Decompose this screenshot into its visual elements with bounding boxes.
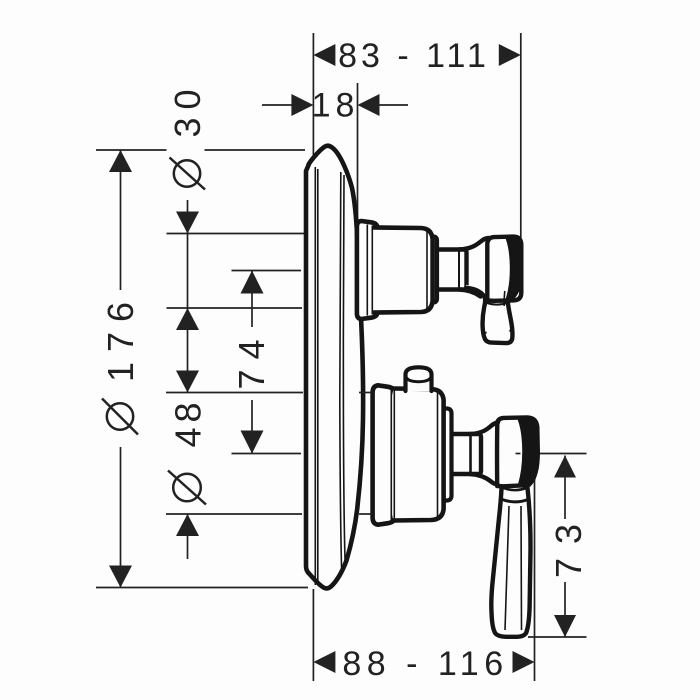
arrow 83-111 right: [499, 44, 521, 66]
73 top segment inside hub: [516, 453, 521, 455]
extension line y=514 lower stem bottom: [166, 513, 302, 515]
lower grip: [491, 480, 530, 637]
arrow 74 top (up): [241, 271, 264, 294]
diameter symbol for 48: [173, 474, 201, 502]
extension line y=453 lower axis right: [538, 453, 587, 455]
arrow 18 right (pointing left): [358, 94, 380, 116]
48 top segment between plate and knob: [359, 392, 372, 394]
lower cap band: [441, 409, 452, 501]
extension line y=587 plate bottom: [96, 587, 308, 589]
svg-text:18: 18: [312, 87, 360, 125]
lower hub crescent: [519, 420, 538, 485]
dim 74 shaft: [251, 271, 253, 328]
extension line top-right vertical x=521: [520, 33, 522, 238]
extension line y=635 lever bottom: [528, 636, 587, 638]
extension line y=233 stem top: [167, 233, 305, 235]
extension line top-left vertical x=313: [312, 33, 314, 166]
arrow 73 top (up): [554, 456, 576, 478]
lower thin lines: [390, 390, 392, 521]
48 bottom segment between plate and knob: [359, 513, 372, 515]
upper cap band: [429, 237, 438, 303]
diameter symbol for 30: [174, 160, 200, 186]
arrow 176 top (up): [109, 150, 132, 172]
arrow 74 bottom (down): [241, 431, 264, 454]
svg-text:176: 176: [100, 292, 141, 382]
extension line bottom-right vertical x=534: [534, 479, 536, 681]
extension line y=270 upper axis: [232, 270, 302, 272]
collar arcs: [503, 488, 527, 491]
arrow 48 bottom (up at y=514): [176, 514, 199, 536]
lower stem-hub flares: [470, 422, 498, 434]
arrow 30 top (down at y=233): [176, 212, 199, 234]
arrow 73 bottom (down): [554, 615, 576, 637]
upper hub crescent: [507, 239, 522, 299]
escutcheon plate (side view): [306, 146, 363, 589]
lower hub: [497, 417, 538, 486]
upper sleeve: [357, 221, 378, 319]
arrow 88-116 right: [513, 651, 535, 673]
extension line y=453 lower axis left: [232, 453, 302, 455]
upper cylinder: [374, 228, 433, 313]
upper thin lines: [366, 225, 368, 316]
diameter symbol for 176: [107, 403, 133, 429]
arrow 83-111 left: [313, 44, 335, 66]
upper valve: [357, 221, 522, 343]
arrow 176 bottom (down): [109, 566, 132, 588]
svg-text:88 - 116: 88 - 116: [342, 645, 508, 683]
svg-text:30: 30: [167, 81, 208, 137]
upper grip: [466, 285, 512, 343]
arrow 88-116 left: [313, 651, 335, 673]
upper stem-hub flares: [459, 238, 489, 250]
upper hub: [487, 237, 521, 301]
dim 18 tail lines: [262, 104, 292, 106]
extension line plate-front vertical x=357: [357, 83, 359, 222]
upper stem: [433, 250, 467, 290]
arrow 30 bottom (up at y=308): [176, 308, 199, 330]
arrow 18 left (pointing right): [291, 94, 313, 116]
extension line bottom-left vertical x=313: [312, 589, 314, 681]
plate back thin lines: [314, 167, 316, 585]
dim 30/48 shaft: [187, 200, 189, 234]
dim segments drawn over fixture: [359, 393, 521, 515]
lower valve: [373, 367, 538, 637]
lower stem: [445, 434, 481, 474]
extension line y=392 lower stem top: [166, 392, 303, 394]
svg-text:48: 48: [168, 397, 209, 447]
extension line y=308 stem bottom: [167, 307, 303, 309]
dim 73 shaft: [564, 456, 566, 520]
plate front thin lines: [340, 172, 342, 570]
svg-text:74: 74: [231, 329, 272, 389]
lower cylinder: [393, 389, 444, 521]
dim 176 shaft: [120, 150, 122, 290]
svg-text:73: 73: [548, 510, 589, 578]
extension line y=150 plate top: [96, 149, 167, 151]
top button: [406, 367, 432, 391]
arrow 48 top (down at y=392): [176, 371, 199, 393]
svg-text:83 - 111: 83 - 111: [338, 37, 490, 75]
lower flare: [373, 385, 395, 524]
